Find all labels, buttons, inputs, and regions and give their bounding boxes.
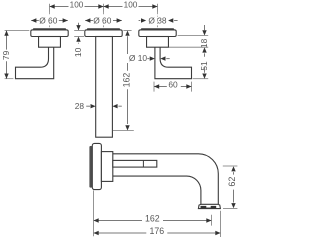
- svg-text:28: 28: [75, 101, 85, 111]
- svg-text:60: 60: [168, 80, 178, 90]
- svg-text:Ø 10: Ø 10: [129, 53, 147, 63]
- svg-text:176: 176: [149, 226, 164, 236]
- svg-text:100: 100: [124, 1, 138, 10]
- svg-text:162: 162: [145, 213, 160, 223]
- svg-text:Ø 38: Ø 38: [148, 15, 166, 25]
- svg-text:79: 79: [1, 50, 11, 60]
- svg-text:162: 162: [122, 73, 132, 88]
- svg-text:10: 10: [73, 47, 83, 57]
- svg-text:Ø 60: Ø 60: [93, 15, 111, 25]
- svg-text:Ø 60: Ø 60: [39, 15, 57, 25]
- svg-text:51: 51: [199, 61, 209, 71]
- svg-text:62: 62: [227, 177, 237, 187]
- svg-text:18: 18: [199, 38, 209, 48]
- svg-text:100: 100: [70, 1, 84, 10]
